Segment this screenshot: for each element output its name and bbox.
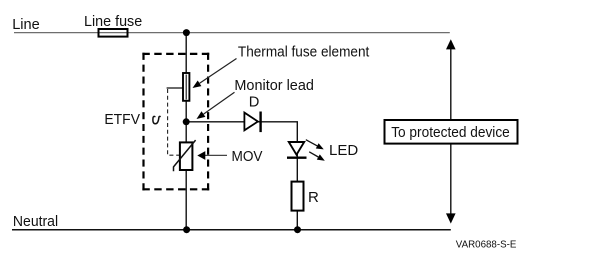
svg-text:To protected device: To protected device — [391, 125, 510, 141]
svg-text:Line fuse: Line fuse — [84, 13, 142, 30]
svg-text:D: D — [249, 94, 260, 111]
svg-text:Monitor lead: Monitor lead — [234, 77, 314, 94]
svg-text:LED: LED — [329, 142, 358, 159]
svg-text:Neutral: Neutral — [13, 213, 58, 230]
svg-text:R: R — [308, 189, 319, 206]
svg-text:MOV: MOV — [232, 148, 263, 165]
svg-text:VAR0688-S-E: VAR0688-S-E — [456, 240, 517, 251]
svg-text:Line: Line — [12, 16, 40, 33]
svg-text:Thermal fuse element: Thermal fuse element — [238, 44, 370, 61]
svg-text:ETFV: ETFV — [104, 111, 140, 128]
